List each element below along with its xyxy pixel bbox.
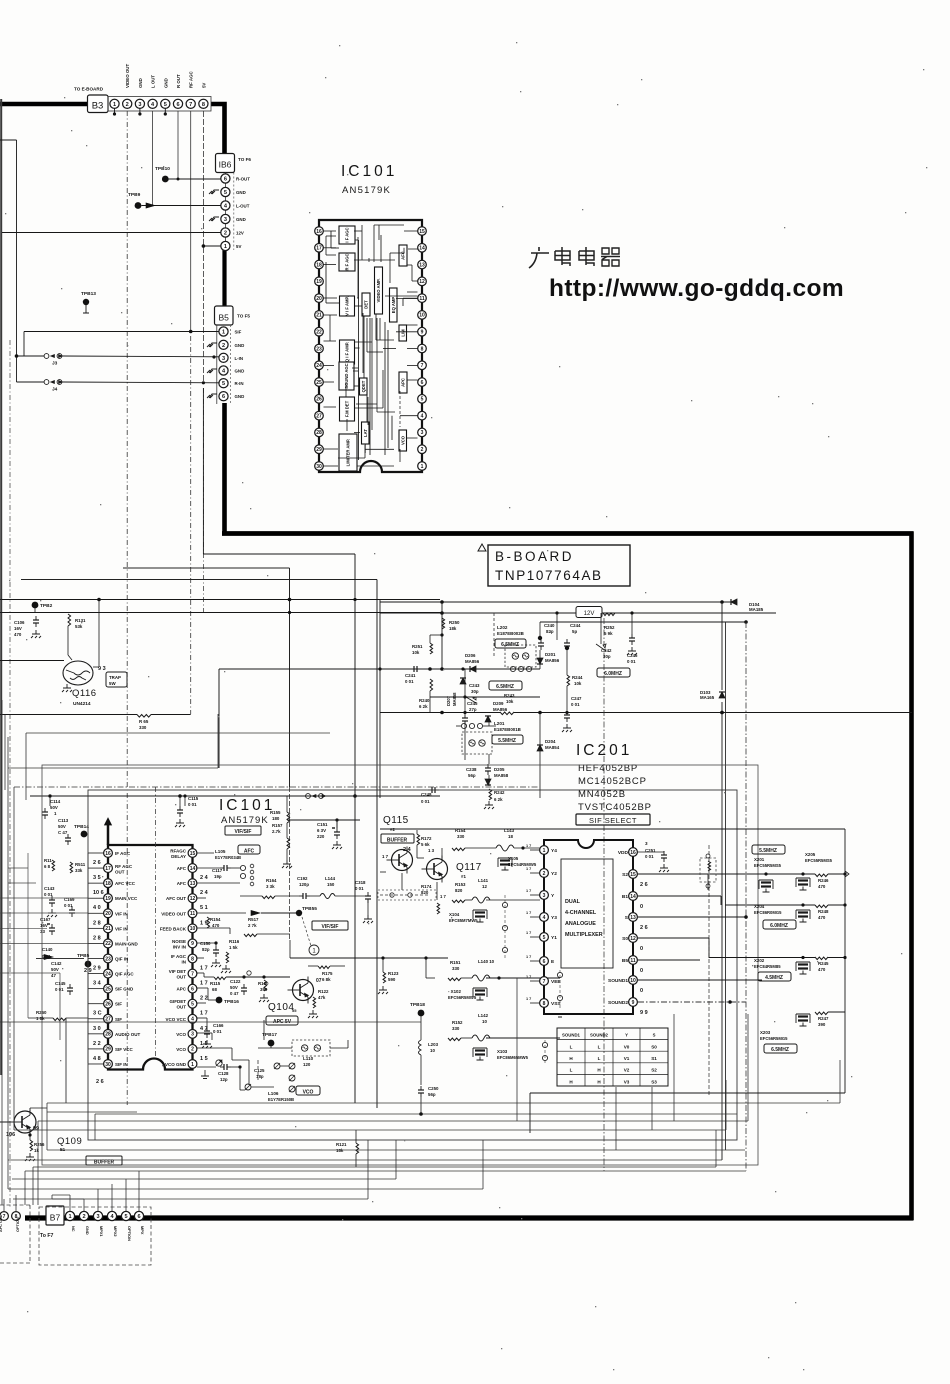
IC101 symbol body [108,845,193,1070]
svg-text:56p: 56p [428,1092,436,1097]
svg-text:VIF/SIF: VIF/SIF [322,924,339,930]
svg-text:12p: 12p [220,1077,228,1082]
wire left to Q116 base [0,660,64,662]
svg-text:4: 4 [421,413,424,419]
svg-text:50V: 50V [58,824,66,829]
svg-text:R11: R11 [44,858,52,863]
svg-text:21: 21 [316,313,322,319]
svg-text:0 01: 0 01 [421,799,430,804]
svg-text:4.5MHZ: 4.5MHZ [765,975,783,981]
filter X104 [473,909,487,911]
svg-text:6.5MHZ: 6.5MHZ [771,1047,789,1053]
svg-text:L: L [598,1045,601,1050]
test point TPB5 [85,961,92,968]
boxed label 5.5MHZ (X201) [752,845,785,854]
svg-text:590: 590 [388,977,396,982]
svg-text:EFC55R5MS5: EFC55R5MS5 [754,863,782,868]
svg-text:68: 68 [212,987,217,992]
wire: thick bus from B3 pin 8 to connector B6 [211,104,225,154]
svg-text:R152: R152 [452,1020,463,1025]
svg-text:SOUND1: SOUND1 [562,1033,581,1038]
svg-text:17: 17 [316,246,322,252]
bus line y=1160 [8,1159,722,1161]
svg-text:53k: 53k [75,624,83,629]
vertical wire x=442 [441,602,443,669]
svg-text:V1: V1 [624,1056,630,1061]
svg-text:EFC56R5MG5: EFC56R5MG5 [760,1036,788,1041]
svg-text:B5: B5 [622,958,628,964]
svg-text:RF AGC: RF AGC [115,864,133,869]
svg-text:C140: C140 [42,947,53,952]
svg-text:6.5MHZ: 6.5MHZ [501,642,519,648]
connector B5 pin 2 GND [219,340,228,349]
AFC coil circles [240,865,245,870]
test point TPB2 [32,602,39,609]
svg-text:0 47: 0 47 [230,991,239,996]
wire from B3 pin 8 drop [202,111,204,383]
IC101 internal block R F AGC [339,253,355,271]
svg-text:R246: R246 [818,878,829,883]
IC101 block pin 28 [315,428,324,437]
wire pin3 vco [197,1032,212,1034]
IC101 pin 8 IF AGC IN [188,954,197,963]
svg-text:C143: C143 [44,886,55,891]
IC101 block pin 14 [418,243,427,252]
svg-text:5p: 5p [572,629,577,634]
svg-text:150: 150 [327,882,335,887]
svg-text:28: 28 [105,1032,111,1038]
svg-text:0: 0 [640,968,643,974]
svg-text:MULTIPLEXER: MULTIPLEXER [565,932,603,938]
ground hook at B5 pin 4 [207,369,217,373]
inner frame line bottom of IC101 section [95,1113,737,1115]
IC101 pin 29 SIF VCC [104,1045,113,1054]
svg-text:Y3: Y3 [551,915,557,921]
connector B5 pin 6 GND [219,392,228,401]
wire cluster below vco [239,1067,241,1090]
IC101 block pin 18 [315,260,324,269]
svg-text:R OUT: R OUT [176,74,181,88]
dashed test circles lower [559,970,561,1010]
svg-text:24: 24 [105,971,111,977]
svg-text:1: 1 [224,244,227,250]
scan edge line at left margin [0,99,2,1075]
svg-text:MA856: MA856 [493,707,508,712]
connector B5 pin 4 GND [219,366,228,375]
svg-text:2 7k: 2 7k [248,923,257,928]
connector B7 box [46,1206,64,1225]
wire horizontal y=579 [21,579,377,581]
svg-text:6 8: 6 8 [44,864,51,869]
svg-text:R154: R154 [210,917,221,922]
dashed outline around B7 [39,1207,151,1265]
svg-text:Y1: Y1 [551,935,557,941]
connector B6 pin 2 12V [221,228,230,237]
vertical bus x=289.5 [289,568,291,787]
svg-text:ANALOGUE: ANALOGUE [565,921,596,927]
boxed label VCO [296,1086,320,1095]
svg-text:- X102: - X102 [448,989,461,994]
ground hook at B6 pin 5 [209,190,219,194]
svg-text:15: 15 [190,851,196,857]
svg-text:14: 14 [419,246,425,252]
dashed outline left connector [0,1204,30,1206]
svg-text:2 6: 2 6 [640,925,648,931]
B3 pin ground stubs [114,109,116,116]
svg-text:1 7: 1 7 [526,911,531,915]
svg-text:47: 47 [51,973,56,978]
svg-text:VIF IN: VIF IN [115,926,128,931]
IC101 internal block SOUND AGC [339,362,354,390]
svg-text:D209: D209 [493,701,504,706]
IC101 package outline [319,220,422,472]
IC101 block pin 30 [315,462,324,471]
svg-text:R153: R153 [455,882,466,887]
svg-text:TPB9: TPB9 [128,192,141,198]
connector B3 pin 8 [199,99,208,108]
IC101 pin 11 VIDEO OUT [188,909,197,918]
ground hook at B5 pin 2 [207,343,217,347]
wire TPB9 to B6 pin 4 [142,205,221,207]
svg-text:J3: J3 [52,361,58,367]
boxed label BUFFER (Q109) [86,1156,122,1165]
svg-text:TRAP: TRAP [109,675,121,680]
svg-text:27: 27 [316,413,322,419]
svg-text:56p: 56p [468,773,476,778]
variable capacitor C128 [216,1060,222,1066]
svg-text:X203: X203 [760,1030,771,1035]
svg-text:3 4: 3 4 [93,981,102,987]
wire rail y=697 short [430,696,540,698]
wire y=712 junction at D103 [720,711,724,715]
IC201 pin 2 Y2 [540,869,549,878]
svg-text:D206: D206 [465,653,476,658]
svg-text:R164: R164 [266,878,277,883]
bus line y=1150 [47,1149,745,1151]
IC201 pin 5 Y1 [540,933,549,942]
svg-text:6: 6 [421,380,424,386]
IC101 block pin 11 [418,294,427,303]
wire 12V rail from left edge to B6 pin 2 [2,232,221,234]
svg-text:B-BOARD: B-BOARD [495,549,574,564]
wire R131 to Q116 [67,626,69,655]
wire pin10 feedback [197,927,230,929]
svg-text:1 7: 1 7 [200,981,208,987]
bus line y=1112 [47,1111,137,1113]
dashed test circles mid [504,895,506,960]
bus line y=1189 [8,1188,483,1190]
svg-text:Q116: Q116 [72,688,97,699]
svg-text:C241: C241 [405,673,416,678]
svg-text:B7: B7 [50,1213,61,1223]
svg-text:R157: R157 [272,823,283,828]
IC101 block pin 23 [315,344,324,353]
wire pin15 row to filters [638,873,815,875]
svg-text:V2: V2 [624,1068,630,1073]
svg-text:L106: L106 [268,1091,279,1096]
svg-text:Y2: Y2 [551,871,557,877]
IC101 internal block V I F AMP. [340,296,355,316]
svg-text:2: 2 [222,343,225,349]
svg-text:R-OUT: R-OUT [236,177,250,182]
svg-text:0 01: 0 01 [405,679,414,684]
svg-text:MPX1: MPX1 [99,1226,104,1237]
watermark Chinese characters guang dian dian qi [529,247,549,268]
IC201 pin 8 VSS [540,999,549,1008]
svg-text:3: 3 [543,893,546,899]
filter X102 [473,987,487,989]
IC201 inner block [561,859,613,968]
IC101 block pin 20 [315,294,324,303]
svg-text:4-CHANNEL: 4-CHANNEL [565,910,597,916]
bus line y=1171 [25,1170,746,1172]
svg-text:VIDEO OUT: VIDEO OUT [125,64,130,88]
IC101 internal block I F AGC [339,226,355,244]
boxed label TRAP 5W [106,672,127,687]
IC101 pin 3 VCO [188,1029,197,1038]
ground hook at B6 pin 3 [209,217,219,221]
IC101 pin 22 MAIN GND [104,939,113,948]
svg-text:EFC54R5MW5: EFC54R5MW5 [508,862,537,867]
resistor R131 [68,614,71,626]
svg-text:R116: R116 [229,939,240,944]
svg-text:2: 2 [543,871,546,877]
IC101 pin 2 VCO [188,1045,197,1054]
svg-text:1 7: 1 7 [526,955,531,959]
svg-text:D205: D205 [494,767,505,772]
svg-text:X103: X103 [497,1049,508,1054]
left nested corner lines [4,715,6,790]
svg-text:VCO GND: VCO GND [165,1062,187,1067]
bus line y=1199 [13,1198,368,1200]
svg-text:VCO: VCO [303,1089,314,1095]
wire pin15 to AFC components [197,852,214,854]
svg-text:OPTION: OPTION [16,1217,20,1232]
svg-text:SIF VCC: SIF VCC [115,1047,134,1052]
svg-text:82p: 82p [546,629,554,634]
svg-text:15: 15 [419,229,425,235]
bus line y=1121 [38,1120,748,1122]
svg-text:VCO: VCO [176,1047,186,1052]
svg-text:MA858: MA858 [452,692,457,706]
svg-text:IC101: IC101 [219,797,275,814]
svg-text:2 6: 2 6 [96,1079,104,1085]
boxed label 6.0MHZ (X204) [763,920,796,929]
svg-text:R 65: R 65 [139,719,149,724]
IC201 pin 6 E [540,957,549,966]
svg-text:AFC VCC: AFC VCC [115,881,136,886]
svg-text:27p: 27p [469,707,477,712]
IC101 internal block VIDEO AMP. [375,267,383,314]
wire left bus verticals near IC101 [27,853,29,1018]
wire Q116 collector up [98,600,100,667]
svg-text:V3: V3 [624,1079,630,1084]
svg-text:RFAGC: RFAGC [170,849,187,854]
IC101 internal block LAT [362,422,370,444]
svg-text:C318: C318 [355,880,366,885]
svg-text:BUFFER: BUFFER [387,837,408,843]
bus line y=1103 [47,1102,840,1104]
svg-text:9 9: 9 9 [640,1010,648,1016]
svg-text:EFC84R5M85: EFC84R5M85 [754,964,781,969]
svg-text:VDD: VDD [618,850,629,856]
svg-text:2.7k: 2.7k [272,829,281,834]
svg-text:820: 820 [421,890,429,895]
svg-text:11: 11 [190,911,196,917]
svg-text:TPB18: TPB18 [410,1002,425,1008]
svg-text:OUT: OUT [115,870,125,875]
svg-text:28: 28 [316,430,322,436]
svg-text:0: 0 [640,988,643,994]
IC101 internal block LIM [399,325,407,341]
svg-text:R511: R511 [75,862,86,867]
svg-text:390: 390 [818,1022,826,1027]
IC101 block pin 21 [315,311,324,320]
svg-text:470: 470 [818,967,826,972]
connector B3 pin 6 [173,99,182,108]
wire rail y=796 with jumpers [30,795,306,797]
svg-text:EFC55R5MS5: EFC55R5MS5 [805,858,833,863]
svg-text:LIM: LIM [400,329,405,337]
svg-text:20: 20 [105,911,111,917]
svg-text:23: 23 [316,346,322,352]
svg-text:C113: C113 [58,818,69,823]
svg-text:7: 7 [421,363,424,369]
boxed label 12V [576,607,602,618]
connector B6 pin 6 R-OUT [221,174,230,183]
partial connector pins left of B7 [0,1212,8,1221]
svg-text:120: 120 [303,1062,311,1067]
svg-text:EQ AMP: EQ AMP [391,297,396,314]
boxed label 6.0MHZ [597,668,630,677]
svg-text:7: 7 [191,971,194,977]
connector B7 pin 2 GND [79,1211,88,1220]
jumper J3 [17,355,45,357]
left vertical bus stack [1,700,3,1205]
connector B5 pin 3 L-IN [219,353,228,362]
svg-text:1 7: 1 7 [200,965,208,971]
diode D104 [731,599,737,605]
svg-text:2 6: 2 6 [640,882,648,888]
svg-text:6: 6 [191,986,194,992]
svg-text:12: 12 [630,936,636,942]
svg-text:X205: X205 [805,852,816,857]
svg-text:APC: APC [401,378,406,387]
svg-text:330: 330 [457,834,465,839]
svg-text:5V: 5V [201,83,206,88]
transistor Q115 [392,850,413,871]
svg-text:DELAY: DELAY [171,854,186,859]
svg-text:R260: R260 [36,1010,47,1015]
IC101 pin 24 QIF AGC [104,969,113,978]
svg-text:VIF DET: VIF DET [169,969,187,974]
svg-text:Y: Y [625,1033,628,1038]
wire pin10 sound1 row [638,979,762,981]
wire y=622 to x=746 corner [540,621,746,623]
wire top rail above IC101 right [180,795,440,797]
IC101 block pin 13 [418,260,427,269]
wire: thick frame right vertical [909,532,914,1221]
IC101 pin 10 FEED BACK [188,924,197,933]
wire J4 to B5 pin 5 [62,381,219,384]
wire: thick bus from B5 down to frame corner [222,403,227,533]
IC101 block pin 15 [418,227,427,236]
svg-text:6 2k: 6 2k [494,797,503,802]
svg-text:S: S [653,1033,656,1038]
svg-text:AFC OUT: AFC OUT [166,896,186,901]
svg-text:C142: C142 [51,961,62,966]
svg-text:X104: X104 [449,912,460,917]
svg-text:TO F6: TO F6 [238,157,251,162]
IC101 pin 6 APC [188,984,197,993]
svg-text:820: 820 [455,888,463,893]
svg-text:10k: 10k [412,650,420,655]
ground at Q116 emitter [62,684,72,692]
svg-text:4 8: 4 8 [93,1056,101,1062]
svg-text:5 1: 5 1 [200,905,208,911]
svg-text:SIF: SIF [115,1017,122,1022]
svg-text:LIMITER AMP.: LIMITER AMP. [346,439,351,467]
IC201 pin 11 B5 [629,956,638,965]
svg-text:6: 6 [543,959,546,965]
svg-text:55: 55 [292,1008,297,1013]
svg-text:2 9: 2 9 [93,965,101,971]
svg-text:R252: R252 [604,625,615,630]
svg-text:6 8k: 6 8k [322,977,331,982]
svg-text:S3: S3 [651,1079,657,1084]
svg-text:1 7: 1 7 [526,997,531,1001]
svg-text:30p: 30p [471,689,479,694]
boxed label AFC [238,845,260,854]
wire TPB17 to L110 [270,1046,272,1048]
IC101 internal block F.M DET [340,397,355,421]
svg-text:AFC: AFC [177,881,187,886]
svg-text:MN4052B: MN4052B [578,789,626,800]
IC101 block pin 24 [315,361,324,370]
boxed label VIF/SIF [225,826,261,835]
svg-text:1 7: 1 7 [526,844,531,848]
svg-text:5V: 5V [236,244,241,249]
IC101 pin 15 RFAGC DELAY [188,849,197,858]
svg-text:TO F5: TO F5 [237,314,250,319]
boxed label APC 5V [266,1016,298,1025]
IC101 block pin 9 [418,327,427,336]
svg-text:82p: 82p [202,947,210,952]
svg-text:9: 9 [632,1000,635,1006]
svg-text:1 7: 1 7 [526,889,531,893]
wire stub B7 connections upper [37,1189,70,1191]
test point TPB17 [268,1040,275,1047]
wire pin5 gifdet [197,1002,206,1004]
svg-text:33k: 33k [75,868,83,873]
svg-text:MA185: MA185 [749,607,764,612]
wire verticals from rail y=796 [49,796,51,806]
svg-text:VCO VCC: VCO VCC [165,1017,186,1022]
svg-text:25: 25 [316,380,322,386]
svg-text:0: 0 [640,904,643,910]
svg-text:14: 14 [190,866,196,872]
svg-text:3 3k: 3 3k [266,884,275,889]
svg-text:3: 3 [224,217,227,223]
svg-text:6: 6 [224,177,227,183]
svg-text:IF AGC: IF AGC [171,954,187,959]
connector B6 pin 5 GND [221,187,230,196]
IC101 pin 16 IF AGC [104,849,113,858]
svg-text:2 6: 2 6 [93,860,101,866]
svg-text:2 4: 2 4 [200,890,209,896]
svg-text:C122: C122 [230,979,241,984]
svg-text:8: 8 [543,1001,546,1007]
